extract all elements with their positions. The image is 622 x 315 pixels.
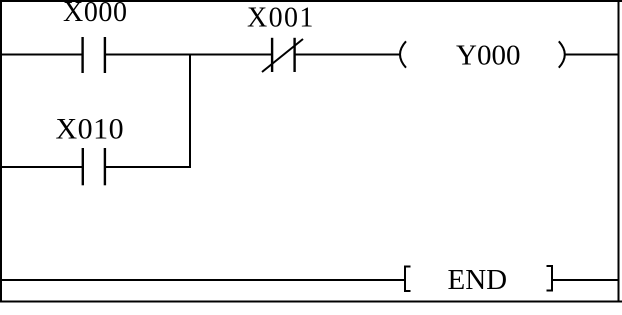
top boundary line	[0, 0, 622, 2]
left power rail	[0, 0, 2, 303]
wire: contact X001 to coil Y000	[296, 54, 402, 56]
right power rail	[618, 0, 620, 303]
wire: contact X010 to branch vertical	[105, 166, 192, 168]
wire: left rail to contact X000	[0, 54, 84, 56]
label X001	[247, 2, 315, 33]
label Y000	[456, 40, 520, 72]
wire: coil Y000 to right rail	[565, 54, 619, 56]
svg-text:Y000: Y000	[456, 40, 520, 72]
contact X001 (normally closed)	[262, 38, 303, 72]
END instruction right bracket	[547, 265, 554, 292]
svg-text:X001: X001	[247, 2, 315, 33]
label END	[448, 264, 508, 296]
bottom boundary line	[0, 301, 622, 303]
wire: left rail to END instruction	[0, 279, 405, 281]
node: branch junction on rung 1	[189, 54, 191, 57]
contact X010 (normally open)	[83, 148, 105, 185]
svg-text:X010: X010	[56, 113, 125, 146]
END instruction left bracket	[404, 266, 411, 293]
wire: contact X000 to contact X001 (through branch junction)	[105, 54, 273, 56]
wire: END instruction to right rail	[552, 279, 619, 281]
label X010	[56, 113, 125, 146]
coil Y000 (output)	[400, 41, 565, 67]
wire: branch vertical connecting rung 1 and rung 2	[189, 54, 191, 168]
wire: left rail to contact X010	[0, 166, 84, 168]
label X000	[63, 0, 128, 28]
contact X000 (normally open)	[83, 37, 105, 73]
svg-text:X000: X000	[63, 0, 128, 28]
svg-text:END: END	[448, 264, 508, 296]
